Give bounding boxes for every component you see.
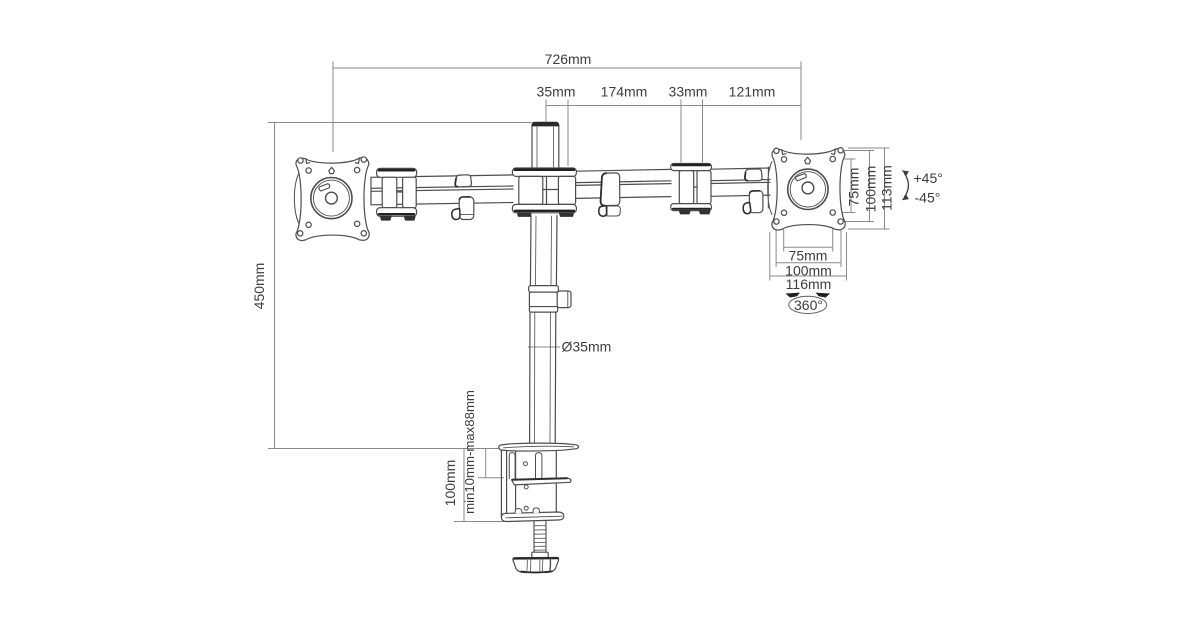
H-joint 33mm bottom dark band — [673, 208, 710, 210]
wing screw A — [515, 509, 522, 514]
svg-text:121mm: 121mm — [729, 84, 776, 100]
H-joint 33mm mid tie — [694, 186, 697, 188]
clamp face hole 3 — [524, 506, 528, 510]
dim line 35/174/33/121 — [546, 105, 801, 107]
pole upper section — [532, 126, 559, 168]
extension 100mm left — [775, 227, 777, 268]
left plate inner hole TR — [354, 167, 359, 172]
right plate slot outline — [796, 174, 807, 181]
tilt arrowhead down — [902, 195, 909, 201]
dim line 75mm below plate — [784, 246, 833, 248]
H-joint 33mm foot A — [680, 211, 691, 214]
dim line 726mm — [333, 67, 801, 69]
left plate slot outline — [319, 184, 330, 191]
clamp front face left edge — [515, 452, 517, 514]
H-joint left bottom dark band — [379, 213, 414, 215]
cable clip 1 upper band — [455, 175, 471, 187]
H-joint left top flange dark band — [379, 169, 414, 172]
knob dark bottom edge — [521, 571, 552, 572]
left plate center ring inner — [313, 180, 349, 216]
right plate outer hole TR — [838, 148, 843, 153]
arm tube lower span A — [371, 177, 513, 205]
right plate center hole — [802, 182, 814, 194]
dim line 100mm right vertical — [869, 151, 871, 222]
dim line 450mm vertical — [274, 123, 276, 449]
cable clip 2 hook loop — [599, 206, 607, 216]
clamp shelf dark top edge — [513, 478, 568, 480]
H-joint center foot B — [560, 213, 574, 217]
svg-text:116mm: 116mm — [786, 276, 832, 292]
H-joint 33mm foot B — [700, 211, 711, 214]
left plate outer hole BR — [361, 231, 366, 236]
dim line 75mm right vertical — [850, 159, 852, 213]
cable clip 3 upper band — [745, 169, 762, 181]
svg-text:100mm: 100mm — [442, 460, 458, 507]
knob scallop lines — [527, 558, 543, 572]
arm tube upper span B — [577, 169, 672, 182]
left plate slot — [321, 185, 330, 188]
extension tick x568 — [567, 100, 569, 167]
pole inner highlight top — [537, 127, 554, 167]
clamp guide slot B — [536, 453, 542, 478]
cable clip 1 lower dark top — [459, 197, 470, 200]
tick 100mm bottom — [843, 221, 874, 223]
collar bottom edge — [530, 306, 558, 308]
tick 75mm bottom — [835, 212, 856, 214]
cable clip 2 lower tab — [607, 206, 620, 216]
H-joint 33mm post A — [679, 171, 693, 204]
cable clip 2 band dark edge — [601, 173, 607, 205]
H-joint 33mm post B — [697, 171, 711, 204]
left plate center hole — [326, 192, 338, 204]
dim line 116mm below plate — [770, 275, 847, 277]
H-joint center post A — [519, 176, 543, 204]
right VESA plate body — [772, 149, 845, 231]
svg-text:100mm: 100mm — [863, 166, 879, 213]
H-joint left post A — [382, 177, 397, 207]
svg-text:360°: 360° — [794, 297, 823, 313]
rod nut — [532, 552, 548, 558]
desk mount plate — [499, 443, 579, 451]
collar side tab inner line — [567, 291, 569, 307]
left plate outer hole TL — [298, 158, 303, 163]
tick 113mm bottom — [848, 228, 890, 230]
right plate notch B — [831, 150, 835, 155]
H-joint 33mm bottom flange — [671, 204, 712, 211]
H-joint 33mm top dark band — [673, 164, 710, 166]
dim line 113mm right vertical — [884, 148, 886, 229]
leader line Ø35mm — [528, 346, 560, 348]
svg-text:174mm: 174mm — [601, 84, 648, 100]
cable clip 3 lower dark top — [750, 191, 760, 194]
pole lower section — [530, 312, 556, 443]
right plate outer hole BL — [774, 219, 779, 224]
right plate inner hole TL — [781, 157, 786, 162]
clamp bottom arm — [501, 512, 563, 522]
svg-text:35mm: 35mm — [537, 84, 576, 100]
left plate notch B — [355, 159, 359, 164]
cable clip 1 hook loop — [452, 209, 460, 220]
svg-text:75mm: 75mm — [846, 168, 862, 207]
left VESA plate bracket behind — [294, 172, 300, 225]
cable clip 1 lower split line — [459, 213, 473, 215]
H-joint left mid tie — [397, 191, 403, 193]
svg-text:113mm: 113mm — [879, 165, 895, 211]
clamp back right edge — [555, 451, 557, 519]
left VESA plate body — [296, 158, 369, 241]
svg-text:+45°: +45° — [914, 170, 943, 186]
svg-text:75mm: 75mm — [789, 248, 828, 264]
H-joint center top flange — [512, 168, 576, 176]
tick 75mm top — [835, 158, 856, 160]
cable clip 1 lower clip — [459, 197, 474, 220]
H-joint center post B — [558, 176, 575, 204]
extension tick x702.5 — [702, 100, 704, 163]
extension tick x546 — [545, 100, 547, 122]
right plate inner hole BL — [781, 210, 786, 215]
extension line desk level — [268, 448, 501, 450]
svg-text:726mm: 726mm — [545, 51, 592, 67]
extension 116mm right — [846, 232, 848, 281]
extension line clamp bottom — [454, 521, 512, 523]
collar body — [529, 292, 557, 312]
right plate inner hole TR — [830, 156, 835, 161]
H-joint center gap lines — [543, 176, 559, 204]
extension tick x681 — [680, 100, 682, 163]
right plate inner hole BR — [830, 210, 835, 215]
H-joint center top dark band — [515, 168, 574, 171]
arm tube upper span A — [371, 175, 513, 188]
pole cap dark — [532, 122, 559, 125]
arm tube upper span C — [711, 168, 770, 181]
H-joint left foot A — [381, 216, 392, 220]
extension line left 726mm — [332, 62, 334, 153]
left plate inner hole BL — [306, 222, 311, 227]
extension line right 726mm/121mm — [800, 62, 802, 141]
extension 116mm left — [769, 232, 771, 281]
svg-text:Ø35mm: Ø35mm — [562, 339, 612, 355]
H-joint center bottom flange — [512, 204, 576, 212]
cable clip 3 band dark edge — [745, 173, 748, 181]
left plate notch A — [306, 159, 310, 164]
right plate center ring inner — [790, 172, 825, 207]
tilt arrowhead up — [902, 170, 909, 176]
knob dark top edge — [514, 557, 558, 559]
H-joint 33mm top flange — [671, 164, 712, 171]
wing screw B — [533, 508, 540, 513]
extension 75mm left — [783, 218, 785, 252]
pole mid section — [530, 216, 557, 286]
left plate outer hole BL — [298, 231, 303, 236]
H-joint left top flange — [377, 168, 417, 177]
clamp middle shelf — [512, 478, 572, 485]
left plate inner hole BR — [354, 221, 359, 226]
collar side tab — [557, 291, 571, 308]
tick 113mm top — [848, 147, 890, 149]
clamp left wall inner — [506, 451, 508, 514]
extension line top (450mm, to pole) — [268, 122, 532, 124]
threaded rod — [534, 521, 546, 552]
svg-text:33mm: 33mm — [669, 84, 708, 100]
svg-text:450mm: 450mm — [251, 263, 267, 310]
arm tube lower span C — [711, 182, 770, 196]
H-joint left foot B — [405, 216, 416, 220]
cable clip 2 tall band — [600, 173, 619, 206]
right VESA plate bracket behind — [768, 162, 772, 215]
dim line 100mm clamp vertical — [463, 449, 465, 522]
360 arrow left — [786, 293, 801, 298]
right plate center ring outer — [788, 169, 828, 209]
tick 100mm top — [843, 150, 874, 152]
cable clip 3 lower clip — [749, 191, 763, 213]
desk plate inner edge — [504, 446, 574, 448]
pole inner highlight lower — [535, 313, 551, 443]
dim line 100mm below plate — [776, 262, 841, 264]
right plate outer hole TL — [774, 148, 779, 153]
collar upper lip — [529, 286, 559, 293]
dim line min-max vertical — [485, 449, 487, 478]
H-joint left bottom flange — [377, 208, 417, 217]
left plate inner hole TL — [306, 168, 311, 173]
cable clip 3 hook loop — [743, 203, 751, 214]
clamp guide slot A — [509, 453, 515, 479]
H-joint center bottom dark band — [515, 210, 574, 212]
svg-text:-45°: -45° — [915, 190, 941, 206]
clamp face hole 1 — [523, 462, 527, 466]
tilt arc +45/-45 — [904, 173, 908, 198]
extension line shelf level — [478, 477, 504, 479]
clamp bottom arm inner line — [506, 516, 562, 518]
left plate center ring outer — [311, 178, 352, 219]
left plate top keyhole — [329, 167, 335, 173]
cable clip 1 upper band dark edge — [455, 178, 457, 186]
rod threads — [534, 526, 546, 551]
right plate notch A — [782, 150, 786, 155]
svg-text:min10mm-max88mm: min10mm-max88mm — [462, 390, 477, 514]
H-joint left post B — [403, 177, 417, 207]
arm tube lower span B — [577, 184, 672, 199]
clamp knob — [513, 558, 559, 573]
clamp left wall outer — [500, 451, 502, 518]
extension 75mm right — [832, 218, 834, 252]
right plate top keyhole — [805, 157, 811, 164]
knob right shade — [549, 558, 552, 572]
H-joint center foot A — [518, 213, 532, 217]
360 rotation ellipse — [789, 296, 827, 313]
clamp face hole 2 — [524, 485, 528, 489]
right plate outer hole BR — [838, 219, 843, 224]
360 arrow right — [816, 293, 831, 298]
extension 100mm right — [840, 227, 842, 268]
pole inner highlight mid — [536, 216, 552, 285]
left plate outer hole TR — [361, 157, 366, 162]
